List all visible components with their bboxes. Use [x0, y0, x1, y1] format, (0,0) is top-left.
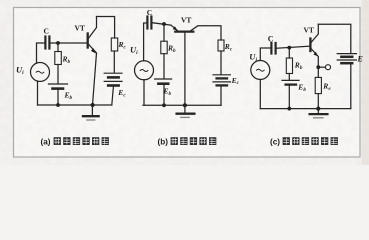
ground (c) [310, 109, 328, 118]
node emitter junction (c) [316, 65, 320, 69]
resistor Re (c) [315, 77, 321, 93]
capacitor C3 (c) [271, 43, 275, 54]
wire capacitor to base (c) [277, 46, 310, 48]
wire node to Rb (a) [57, 43, 59, 52]
caption (a) 共发射极电路 [41, 137, 109, 146]
wire Rc to battery Ec (b) [220, 51, 222, 74]
wire Ec to rail (b) [220, 87, 222, 106]
node rail-Re junction (c) [316, 107, 320, 111]
node base junction (a) [56, 41, 60, 45]
wire collector top rail (a) [97, 17, 115, 39]
paper grain overlay [0, 0, 369, 165]
wire Eb to rail (c) [288, 86, 290, 109]
wire emitter to output terminal (c) [318, 66, 325, 68]
resistor Rb (b) [161, 41, 167, 54]
transistor VT (b) collector lead [191, 26, 221, 40]
wire E to rail (c) [350, 64, 352, 108]
wire Rb to battery Eb (c) [288, 74, 290, 80]
transistor VT (a) base bar [87, 34, 89, 48]
resistor Rb (a) [55, 52, 62, 65]
caption (b) 共基极电路 [158, 137, 217, 146]
transistor VT (c) emitter lead with arrow [311, 49, 318, 68]
wire Rc to battery Ec (a) [113, 51, 115, 73]
battery Ec (a) [104, 73, 122, 85]
svg-text:VT: VT [181, 16, 191, 25]
svg-text:C: C [268, 35, 274, 44]
svg-text:C: C [44, 27, 49, 36]
transistor VT (b) base wire down [184, 33, 186, 106]
node rail-base junction (b) [183, 103, 187, 107]
node rail-Eb junction (c) [287, 107, 291, 111]
wire Ui top to capacitor (a) [37, 43, 45, 63]
resistor Rb (c) [286, 58, 292, 74]
battery Eb (a) [49, 84, 68, 89]
wire Ui top to capacitor (c) [260, 48, 270, 60]
source Ui (c) [251, 61, 270, 80]
resistor Rc (b) [218, 40, 224, 51]
wire capacitor to emitter (b) [153, 23, 171, 25]
capacitor C1 (a) [45, 37, 49, 49]
svg-text:VT: VT [304, 26, 314, 35]
wire top-left corner to capacitor (b) [144, 23, 147, 61]
wire Ui bottom to rail (a) [37, 81, 39, 105]
frame border of figure [14, 8, 361, 158]
wire Ui bottom to rail (c) [259, 80, 261, 109]
output terminal circle (c) [326, 65, 331, 70]
transistor VT (c) collector lead [311, 24, 318, 42]
svg-text:C: C [147, 8, 152, 17]
node rail-emitter junction (a) [91, 103, 95, 107]
battery E (c) [337, 54, 356, 64]
svg-text:(b): (b) [158, 137, 169, 146]
value labels group [16, 8, 363, 101]
capacitor C2 (b) [147, 17, 151, 29]
node top junction Rb (b) [162, 22, 166, 26]
wire Rb to battery Eb (a) [57, 65, 59, 84]
ground (a) [83, 105, 99, 120]
battery Eb (c) [282, 80, 299, 84]
source Ui (b) [135, 61, 154, 80]
wire Rb to battery Eb (b) [163, 54, 165, 78]
wire Eb to ground rail (a) [57, 90, 59, 105]
wire emitter to Re (c) [317, 67, 319, 77]
resistor Rc (a) [111, 38, 117, 51]
svg-text:(c): (c) [270, 137, 280, 146]
wire Eb to rail (b) [163, 85, 165, 105]
right margin strip [362, 0, 369, 165]
node base junction (c) [287, 46, 291, 50]
battery Ec (b) [213, 75, 230, 86]
svg-text:VT: VT [75, 24, 85, 33]
node rail-Eb junction (a) [56, 103, 60, 107]
wire bottom rail (a) [38, 104, 112, 106]
wire Ec to rail (a) [112, 87, 114, 105]
paper background [0, 0, 369, 165]
transistor VT (b) base bar [175, 30, 193, 32]
node rail-Eb junction (b) [162, 103, 166, 107]
wire bottom rail (b) [143, 104, 221, 106]
wire node to Rb (b) [163, 24, 165, 41]
wire node to Rb (c) [288, 48, 290, 58]
svg-text:E: E [357, 55, 363, 64]
caption (c) 共集电极电路 [270, 137, 338, 146]
transistor VT (c) base bar [309, 39, 311, 52]
transistor VT (a) emitter lead with arrow [88, 44, 96, 105]
wire Ui bottom to rail (b) [143, 80, 145, 106]
wire capacitor to base node (a) [51, 42, 87, 44]
ground (b) [177, 105, 195, 117]
source Ui (a) [31, 63, 50, 82]
wire Re to rail (c) [317, 94, 319, 109]
battery Eb (b) [155, 79, 172, 84]
wire collector top rail (c) [318, 24, 351, 52]
svg-text:(a): (a) [41, 137, 51, 146]
transistor VT (b) emitter lead with arrow [171, 25, 178, 31]
wire bottom rail (c) [260, 108, 351, 110]
transistor VT (a) collector lead [88, 17, 96, 39]
